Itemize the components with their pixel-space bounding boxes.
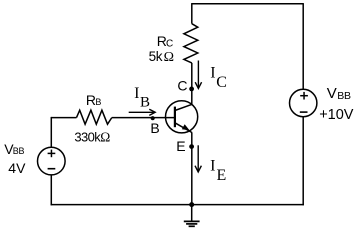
svg-text:E: E — [217, 167, 227, 184]
svg-text:5k: 5k — [149, 49, 163, 64]
wire collector lower — [191, 63, 193, 105]
svg-text:330k: 330k — [74, 129, 101, 144]
svg-text:C: C — [166, 38, 173, 49]
current arrow IC — [195, 61, 201, 89]
node C dot — [189, 87, 194, 92]
svg-text:BB: BB — [13, 146, 25, 156]
svg-text:C: C — [177, 78, 187, 94]
transistor Q1 emitter lead — [175, 123, 192, 133]
wire emitter branch — [191, 133, 193, 205]
wire base — [51, 117, 76, 119]
wire top horizontal — [192, 3, 303, 5]
svg-text:B: B — [95, 97, 101, 107]
wire right branch lower — [302, 117, 304, 206]
svg-text:B: B — [150, 120, 159, 136]
node B dot — [151, 116, 155, 120]
node E dot — [189, 144, 194, 149]
svg-text:4V: 4V — [8, 160, 26, 176]
source VBB left plus — [48, 150, 56, 158]
ground symbol — [184, 221, 200, 226]
svg-text:E: E — [176, 138, 185, 154]
svg-text:Ω: Ω — [100, 129, 110, 144]
svg-text:B: B — [140, 94, 150, 110]
wire left branch lower — [50, 175, 52, 205]
current arrow IE — [195, 145, 201, 172]
ground junction dot — [189, 202, 194, 207]
svg-text:BB: BB — [337, 90, 351, 102]
ground stub — [191, 205, 193, 221]
transistor Q1 base bar — [174, 107, 176, 128]
transistor Q1 circle — [166, 101, 198, 133]
current arrow IB — [129, 109, 156, 115]
resistor RC — [184, 24, 198, 63]
resistor RB — [77, 110, 112, 124]
svg-text:I: I — [210, 157, 215, 174]
source VBB right minus — [300, 111, 308, 113]
source VBB left circle — [38, 147, 66, 175]
transistor Q1 emitter arrowhead — [182, 124, 190, 130]
wire bottom horizontal — [51, 204, 304, 206]
transistor Q1 collector lead — [175, 104, 192, 110]
svg-text:Ω: Ω — [164, 50, 174, 65]
svg-text:+10V: +10V — [319, 107, 354, 123]
source VBB right plus — [300, 92, 308, 100]
svg-text:I: I — [134, 85, 139, 102]
source VBB right circle — [290, 89, 317, 116]
svg-text:C: C — [216, 74, 227, 91]
wire left branch upper — [50, 117, 52, 147]
wire right branch upper — [302, 3, 304, 89]
wire collector branch upper — [191, 3, 193, 24]
svg-text:I: I — [210, 64, 215, 81]
svg-text:V: V — [327, 85, 337, 102]
source VBB left minus — [48, 168, 56, 170]
